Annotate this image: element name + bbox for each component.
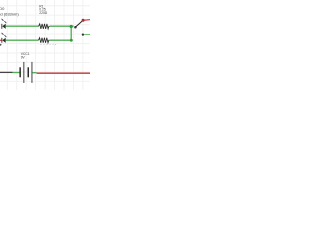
wire vertical joining nets (green) bbox=[70, 26, 72, 40]
LED D1 (cathode bar + triangle, pointing left) bbox=[1, 24, 5, 29]
resistor R2 zigzag bbox=[39, 38, 50, 43]
wire LED2 anode to R2 (green, bottom net) bbox=[6, 39, 39, 41]
junction dot top (71.2,26.4) bbox=[70, 25, 73, 28]
LED D1 light arrows bbox=[2, 19, 6, 23]
wire battery right stub (green) bbox=[32, 72, 36, 74]
node mark bottom-left of LED2 bbox=[0, 44, 2, 46]
switch S1 lever bbox=[75, 21, 82, 28]
wire battery left lead (black) bbox=[0, 71, 13, 73]
switch S1 throw post B bbox=[82, 33, 84, 35]
wire LED1 anode to R1 (green, top net) bbox=[6, 25, 39, 27]
switch S1 pivot post bbox=[74, 26, 77, 29]
svg-text:220Ω: 220Ω bbox=[39, 11, 48, 15]
junction dot corner (71.3,40.2) bbox=[70, 39, 73, 42]
wire bottom rail to right edge (red) bbox=[37, 72, 90, 74]
grid bbox=[0, 0, 90, 90]
svg-text:Red (633nm): Red (633nm) bbox=[0, 11, 19, 16]
battery VCC1 plates bbox=[19, 62, 32, 83]
LED D2 (cathode bar + triangle, pointing left) bbox=[1, 38, 5, 43]
resistor R1 zigzag bbox=[39, 24, 50, 29]
wire R1 to switch (green, top net) bbox=[50, 25, 74, 27]
wire from throw A to right edge (red) bbox=[84, 19, 90, 22]
wire battery left stub (green) bbox=[13, 72, 20, 74]
LED D2 light arrows bbox=[2, 33, 6, 37]
wire LED D2 cathode stub (red) bbox=[0, 39, 2, 41]
wire from throw B to right edge (light green) bbox=[84, 34, 90, 36]
wire R2 to corner (green, bottom net) bbox=[50, 39, 71, 41]
dotted guide row bbox=[41, 44, 57, 45]
switch S1 throw post A (red) bbox=[82, 19, 85, 22]
